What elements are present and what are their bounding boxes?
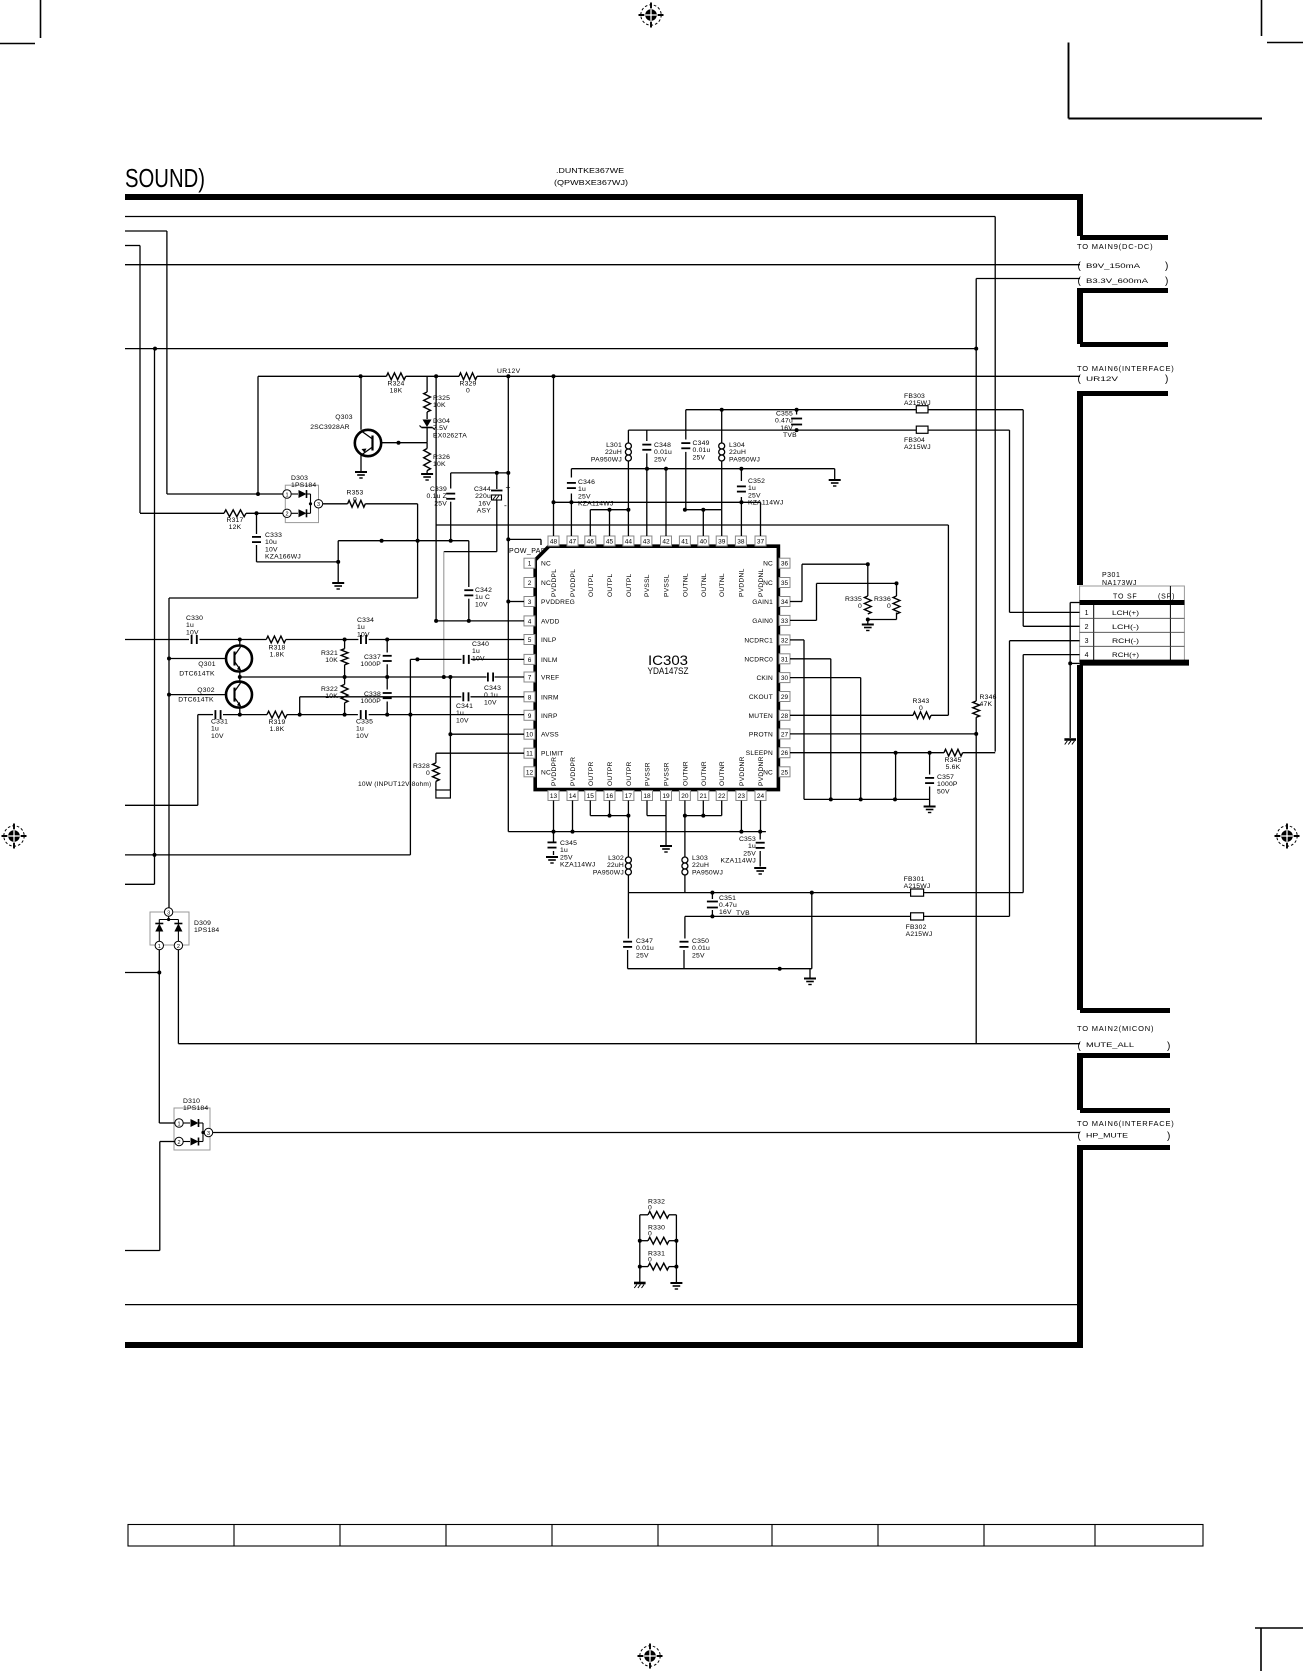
wire pin42 PVSSL drop bbox=[665, 469, 667, 536]
svg-text:1: 1 bbox=[158, 944, 161, 950]
IC303 pin 17 OUTPR bbox=[623, 791, 634, 801]
transistor Q301 DTC614TK bbox=[169, 658, 226, 660]
IC303 pin 47 PVDDPL bbox=[567, 536, 578, 546]
schematic border right side with connector tabs bbox=[1077, 197, 1083, 236]
svg-text:NC: NC bbox=[763, 769, 773, 776]
svg-text:0.01u: 0.01u bbox=[693, 447, 711, 454]
svg-text:SLEEPN: SLEEPN bbox=[746, 750, 773, 757]
svg-text:OUTPR: OUTPR bbox=[607, 761, 614, 786]
ground near C333 bbox=[332, 582, 344, 584]
IC303 pin 1 NC bbox=[524, 558, 535, 568]
IC303 pin 37 PVDDNL bbox=[755, 536, 766, 546]
svg-text:TVB: TVB bbox=[783, 432, 797, 439]
svg-text:AVSS: AVSS bbox=[541, 732, 559, 739]
wire pin13 drop bbox=[553, 801, 555, 843]
svg-text:1PS184: 1PS184 bbox=[194, 927, 219, 934]
ferrite bead FB301 A215WJ bbox=[911, 889, 924, 896]
ground under R335 bbox=[867, 620, 869, 624]
wire RCH+ rail y=892.6 via FB301 bbox=[628, 892, 910, 894]
wire stub y=972.5 bbox=[125, 972, 159, 974]
svg-text:): ) bbox=[1165, 276, 1169, 287]
wire RCH(-) drop x=1009.5 bbox=[1010, 640, 1080, 642]
svg-text:2: 2 bbox=[177, 1140, 180, 1146]
IC303 pin 43 PVSSL bbox=[641, 536, 652, 546]
svg-text:C348: C348 bbox=[654, 442, 671, 449]
svg-text:NCDRC1: NCDRC1 bbox=[744, 637, 773, 644]
svg-text:25V: 25V bbox=[578, 493, 591, 500]
IC303 pin 5 INLP bbox=[524, 635, 535, 645]
wire pin47/C346 column bbox=[570, 469, 572, 478]
svg-text:(: ( bbox=[1078, 276, 1082, 287]
svg-text:UR12V: UR12V bbox=[497, 368, 521, 375]
svg-text:3: 3 bbox=[207, 1131, 210, 1137]
capacitor C340 1u 10V bbox=[463, 655, 465, 664]
wire stub y=245.5 bbox=[125, 245, 140, 247]
IC303 pin 32 NCDRC1 bbox=[779, 635, 790, 645]
svg-text:17: 17 bbox=[625, 793, 633, 800]
svg-text:10V: 10V bbox=[456, 717, 469, 724]
svg-text:EX0262TA: EX0262TA bbox=[433, 432, 467, 439]
ground P301 shield bbox=[1064, 738, 1076, 741]
schematic border bottom thick bar bbox=[125, 1342, 1083, 1348]
svg-text:25V: 25V bbox=[748, 492, 761, 499]
svg-text:C347: C347 bbox=[636, 938, 653, 945]
svg-text:15: 15 bbox=[587, 793, 595, 800]
wire UR12V drop x=553.5 to PVDD join bbox=[553, 376, 555, 536]
inductor L304 22uH PA950WJ bbox=[721, 410, 723, 443]
svg-text:20: 20 bbox=[681, 793, 689, 800]
IC303 pin 27 PROTN bbox=[779, 729, 790, 739]
svg-text:GAIN0: GAIN0 bbox=[752, 618, 773, 625]
ferrite bead FB304 A215WJ bbox=[916, 426, 928, 433]
svg-text:3: 3 bbox=[1085, 638, 1089, 645]
wire POW_PAD link y=539.4 bbox=[508, 538, 541, 540]
svg-text:PROTN: PROTN bbox=[749, 731, 773, 738]
svg-text:18K: 18K bbox=[390, 388, 403, 395]
svg-text:0: 0 bbox=[648, 1205, 652, 1212]
svg-text:23: 23 bbox=[738, 793, 746, 800]
wire long rail y=525 to MUTEN pull bbox=[436, 524, 948, 526]
svg-text:1: 1 bbox=[177, 1121, 180, 1127]
svg-text:3: 3 bbox=[317, 502, 320, 508]
IC303 pin 46 OUTPL bbox=[585, 536, 596, 546]
svg-text:C335: C335 bbox=[356, 719, 373, 726]
svg-text:1.8K: 1.8K bbox=[270, 652, 285, 659]
wire pin17 column to L302 bbox=[627, 801, 629, 858]
IC303 pin 20 OUTNR bbox=[679, 791, 690, 801]
svg-text:25: 25 bbox=[781, 769, 789, 776]
svg-text:16: 16 bbox=[606, 793, 614, 800]
svg-text:10K: 10K bbox=[433, 402, 446, 409]
svg-text:1u: 1u bbox=[186, 622, 194, 629]
wire Q301 collector bbox=[239, 640, 241, 646]
wire stub y=231 bbox=[125, 230, 167, 232]
svg-text:50V: 50V bbox=[937, 788, 950, 795]
svg-text:1u C: 1u C bbox=[475, 594, 490, 601]
svg-text:10W (INPUT12V-8ohm): 10W (INPUT12V-8ohm) bbox=[358, 781, 431, 788]
capacitor C347 0.01u 25V bbox=[627, 893, 629, 939]
junction dot on y=540.7 node bbox=[380, 539, 384, 543]
svg-text:16V: 16V bbox=[719, 909, 732, 916]
svg-text:1u: 1u bbox=[357, 624, 365, 631]
IC303 pin 12 NC bbox=[524, 767, 535, 777]
capacitor C345 1u 25V KZA114WJ bbox=[548, 841, 557, 843]
svg-text:10V: 10V bbox=[484, 699, 497, 706]
ferrite bead FB303 A215WJ bbox=[916, 406, 928, 413]
wire OUTPL join y=509.7 bbox=[590, 509, 628, 511]
svg-text:): ) bbox=[1165, 261, 1169, 272]
wire OUTNL join y=509.7 bbox=[685, 509, 722, 511]
svg-text:VREF: VREF bbox=[541, 675, 559, 682]
wire Q303 base row y=442.7 bbox=[381, 442, 427, 444]
capacitor C339 0.1u Z 25V bbox=[450, 473, 452, 489]
svg-text:2: 2 bbox=[1085, 624, 1089, 631]
ground on rail-468.7 bbox=[834, 469, 836, 479]
resistor R324 18K bbox=[386, 373, 405, 380]
svg-text:A215WJ: A215WJ bbox=[904, 883, 931, 890]
wire rail y=409.7 (L amp supply via FB303) bbox=[686, 409, 917, 411]
P301 pin 3 RCH(-) bbox=[1080, 645, 1185, 647]
resistor R331 0 bbox=[648, 1263, 669, 1270]
svg-text:B3.3V_600mA: B3.3V_600mA bbox=[1086, 278, 1149, 285]
svg-text:1: 1 bbox=[1085, 610, 1089, 617]
wire pin32 NCDRC1 bbox=[790, 639, 804, 641]
svg-text:31: 31 bbox=[781, 656, 789, 663]
transistor Q302 DTC614TK bbox=[169, 694, 226, 696]
svg-text:33: 33 bbox=[781, 618, 789, 625]
svg-text:0: 0 bbox=[426, 770, 430, 777]
svg-text:47: 47 bbox=[569, 539, 577, 546]
capacitor C337 1000P bbox=[386, 640, 388, 653]
svg-text:L304: L304 bbox=[729, 442, 745, 449]
resistor R321 10K bbox=[344, 640, 346, 649]
transistor Q303 2SC3928AR bbox=[360, 376, 362, 430]
resistor R343 0 bbox=[913, 712, 931, 719]
IC303 pin 22 OUTNR bbox=[716, 791, 727, 801]
svg-text:19: 19 bbox=[662, 793, 670, 800]
svg-text:L302: L302 bbox=[608, 855, 624, 862]
ground chassis left bbox=[634, 1282, 646, 1285]
svg-text:0: 0 bbox=[648, 1257, 652, 1264]
wire rail y=799.4 bbox=[804, 798, 930, 800]
svg-text:R336: R336 bbox=[874, 596, 891, 603]
capacitor C333 10u 10V KZA166WJ bbox=[256, 513, 258, 534]
svg-text:TO SF: TO SF bbox=[1113, 594, 1137, 601]
svg-text:HP_MUTE: HP_MUTE bbox=[1086, 1133, 1129, 1140]
svg-text:16V: 16V bbox=[478, 500, 491, 507]
svg-text:22: 22 bbox=[718, 793, 726, 800]
svg-text:37: 37 bbox=[757, 539, 765, 546]
svg-text:LCH(+): LCH(+) bbox=[1112, 610, 1139, 617]
svg-text:29: 29 bbox=[781, 694, 789, 701]
svg-text:18: 18 bbox=[643, 793, 651, 800]
wire MUTE_ALL y=1043.7 bbox=[178, 1043, 1080, 1045]
wire R network right rail bbox=[669, 1214, 676, 1216]
ground under Q303 bbox=[355, 471, 367, 473]
svg-text:16V: 16V bbox=[780, 425, 793, 432]
wire INRM line y=696.8 bbox=[300, 696, 462, 698]
wire UR12V left drop to D303 bbox=[257, 376, 259, 494]
svg-text:OUTPL: OUTPL bbox=[607, 573, 614, 597]
bottom thin rule bbox=[125, 1304, 1080, 1306]
svg-text:R321: R321 bbox=[321, 650, 338, 657]
svg-text:Q301: Q301 bbox=[198, 661, 215, 668]
schematic border top thick bar bbox=[125, 194, 1083, 200]
svg-text:10V: 10V bbox=[472, 655, 485, 662]
diode D304 7.5V EX0262TA (zener) bbox=[426, 412, 428, 419]
svg-text:C345: C345 bbox=[560, 840, 577, 847]
svg-text:PVDDPL: PVDDPL bbox=[570, 569, 577, 597]
svg-text:0.1u Z: 0.1u Z bbox=[427, 493, 447, 500]
svg-text:NC: NC bbox=[541, 769, 551, 776]
wire pin28 MUTEN bbox=[790, 714, 913, 716]
svg-text:R343: R343 bbox=[912, 698, 929, 705]
svg-text:KZA166WJ: KZA166WJ bbox=[265, 554, 301, 561]
resistor R346 47K bbox=[973, 701, 980, 717]
resistor R317 12K bbox=[140, 512, 224, 514]
wire INLM riser x=410.4 bbox=[409, 659, 411, 855]
svg-text:8: 8 bbox=[528, 694, 532, 701]
page corner mark bottom-right bbox=[1255, 1627, 1303, 1629]
svg-text:OUTNR: OUTNR bbox=[682, 761, 689, 786]
svg-text:1u: 1u bbox=[211, 726, 219, 733]
svg-text:Q302: Q302 bbox=[197, 687, 214, 694]
svg-text:C331: C331 bbox=[211, 719, 228, 726]
svg-text:NC: NC bbox=[763, 580, 773, 587]
IC303 pin 7 VREF bbox=[524, 672, 535, 682]
wire pin3 PVDDREG bbox=[508, 601, 524, 603]
resistor R325 10K bbox=[426, 376, 428, 392]
svg-text:2SC3928AR: 2SC3928AR bbox=[310, 424, 350, 431]
svg-text:L303: L303 bbox=[692, 855, 708, 862]
svg-text:OUTNR: OUTNR bbox=[701, 761, 708, 786]
svg-text:D303: D303 bbox=[291, 475, 308, 482]
capacitor C338 1000P bbox=[386, 677, 388, 690]
wire PVDD join y=502.3 bbox=[554, 501, 761, 503]
svg-text:25V: 25V bbox=[560, 854, 573, 861]
wire B9V_150mA rail (y=264.7) bbox=[125, 264, 1080, 266]
svg-text:41: 41 bbox=[681, 539, 689, 546]
capacitor C342 1u C 10V bbox=[468, 541, 470, 587]
svg-text:34: 34 bbox=[781, 599, 789, 606]
svg-text:MUTE_ALL: MUTE_ALL bbox=[1086, 1042, 1135, 1049]
svg-text:0.01u: 0.01u bbox=[654, 449, 672, 456]
svg-text:PA950WJ: PA950WJ bbox=[591, 456, 622, 463]
svg-text:C337: C337 bbox=[364, 654, 381, 661]
IC303 pin 30 CKIN bbox=[779, 673, 790, 683]
svg-text:2: 2 bbox=[285, 512, 288, 518]
svg-text:0.01u: 0.01u bbox=[636, 945, 654, 952]
svg-text:48: 48 bbox=[550, 539, 558, 546]
wire stub y=1250.5 bbox=[125, 1250, 160, 1252]
svg-text:14: 14 bbox=[569, 793, 577, 800]
svg-text:25V: 25V bbox=[743, 850, 756, 857]
svg-text:1000P: 1000P bbox=[937, 781, 958, 788]
svg-text:AVDD: AVDD bbox=[541, 618, 560, 625]
svg-text:POW_PAD: POW_PAD bbox=[509, 548, 546, 555]
IC303 pin 29 CKOUT bbox=[779, 692, 790, 702]
wire INLM line y=659.4 bbox=[410, 658, 461, 660]
wire Q302 emitter bbox=[239, 708, 241, 715]
svg-text:220u: 220u bbox=[475, 493, 491, 500]
resistor R345 5.6K bbox=[944, 749, 963, 756]
wire pin24 drop bbox=[760, 801, 762, 832]
svg-text:YDA147SZ: YDA147SZ bbox=[648, 666, 689, 676]
svg-text:12K: 12K bbox=[229, 524, 242, 531]
svg-text:10: 10 bbox=[526, 732, 534, 739]
svg-text:4: 4 bbox=[1085, 652, 1089, 659]
svg-text:INLP: INLP bbox=[541, 637, 557, 644]
svg-text:10V: 10V bbox=[186, 629, 199, 636]
svg-text:3: 3 bbox=[167, 910, 170, 916]
wire stub y=855.5 bbox=[125, 883, 155, 885]
svg-text:R324: R324 bbox=[387, 381, 404, 388]
resistor R332 0 bbox=[648, 1211, 669, 1218]
svg-text:25V: 25V bbox=[654, 456, 667, 463]
svg-text:0: 0 bbox=[353, 497, 357, 504]
svg-text:C342: C342 bbox=[475, 587, 492, 594]
wire AVSS pin10 bbox=[450, 733, 524, 735]
svg-text:PVDDNL: PVDDNL bbox=[738, 568, 745, 597]
svg-text:OUTNR: OUTNR bbox=[719, 761, 726, 786]
capacitor C346 1u 25V KZA114WJ bbox=[567, 482, 576, 484]
svg-text:35: 35 bbox=[781, 580, 789, 587]
wire RCH(+) drop x=1023.2 bbox=[1023, 654, 1079, 656]
IC303 pin 4 AVDD bbox=[524, 616, 535, 626]
capacitor C353 1u 25V KZA114WJ bbox=[759, 832, 761, 840]
svg-text:1: 1 bbox=[528, 561, 532, 568]
svg-text:13: 13 bbox=[550, 793, 558, 800]
jumper box below R328/AVSS columns bbox=[436, 790, 451, 798]
capacitor C331 1u 10V bbox=[214, 710, 216, 719]
capacitor C335 1u 10V bbox=[360, 710, 362, 719]
svg-text:SOUND): SOUND) bbox=[125, 165, 205, 193]
svg-text:CKOUT: CKOUT bbox=[749, 694, 773, 701]
svg-text:39: 39 bbox=[718, 539, 726, 546]
svg-text:B9V_150mA: B9V_150mA bbox=[1086, 263, 1141, 270]
svg-text:5.6K: 5.6K bbox=[946, 764, 961, 771]
IC303 pin 6 INLM bbox=[524, 654, 535, 664]
svg-text:1u: 1u bbox=[560, 847, 568, 854]
svg-text:C344: C344 bbox=[474, 486, 491, 493]
P301 pin 1 LCH(+) bbox=[1080, 617, 1185, 619]
IC303 pin 48 PVDDPL bbox=[548, 536, 559, 546]
svg-text:PVDDREG: PVDDREG bbox=[541, 599, 575, 606]
svg-text:32: 32 bbox=[781, 637, 789, 644]
svg-text:7.5V: 7.5V bbox=[433, 425, 448, 432]
wire rail y=472.9 (C339/C344 top) bbox=[451, 472, 509, 474]
svg-text:11: 11 bbox=[526, 751, 533, 758]
wire pin37 drop bbox=[760, 502, 762, 536]
svg-text:R346: R346 bbox=[980, 694, 997, 701]
IC303 pin 42 PVSSL bbox=[661, 536, 672, 546]
svg-text:27: 27 bbox=[781, 731, 789, 738]
svg-text:C357: C357 bbox=[937, 774, 954, 781]
P301 pin 2 LCH(-) bbox=[1080, 631, 1185, 633]
svg-text:36: 36 bbox=[781, 561, 789, 568]
wire Q301 emitter to VREF row bbox=[239, 672, 241, 682]
IC303 pin 10 AVSS bbox=[524, 729, 535, 739]
svg-text:46: 46 bbox=[587, 539, 595, 546]
capacitor C330 1u 10V bbox=[191, 635, 193, 644]
wire LCH(+) drop x=1009.5 bbox=[1009, 430, 1011, 612]
svg-text:RCH(-): RCH(-) bbox=[1112, 638, 1139, 645]
IC303 pin 45 OUTPL bbox=[604, 536, 615, 546]
ground on rail-799.4 bbox=[929, 799, 931, 805]
IC303 pin 40 OUTNL bbox=[698, 536, 709, 546]
svg-text:10V: 10V bbox=[357, 631, 370, 638]
svg-text:R317: R317 bbox=[226, 517, 243, 524]
svg-text:C333: C333 bbox=[265, 532, 282, 539]
IC303 pin 15 OUTPR bbox=[585, 791, 596, 801]
svg-text:12: 12 bbox=[526, 769, 534, 776]
capacitor C357 1000P 50V bbox=[929, 753, 931, 775]
wire INLP line y=639.5 bbox=[125, 639, 189, 641]
ground under R326 bbox=[426, 471, 428, 473]
resistor R326 10K bbox=[426, 443, 428, 449]
svg-text:KZA114WJ: KZA114WJ bbox=[560, 862, 595, 869]
svg-text:C340: C340 bbox=[472, 641, 489, 648]
wire OUTPR join y=815.6 bbox=[589, 801, 591, 816]
inductor L301 22uH PA950WJ bbox=[627, 430, 629, 443]
svg-text:NC: NC bbox=[541, 561, 551, 568]
svg-text:.DUNTKE367WE: .DUNTKE367WE bbox=[556, 168, 624, 175]
svg-text:(SP): (SP) bbox=[1158, 594, 1175, 601]
svg-text:C343: C343 bbox=[484, 685, 501, 692]
ground on rail-968.7 bbox=[809, 969, 811, 978]
svg-text:C355: C355 bbox=[776, 411, 793, 418]
registration crosshair right-middle bbox=[1275, 835, 1300, 837]
svg-text:PLIMIT: PLIMIT bbox=[541, 751, 563, 758]
svg-text:OUTPR: OUTPR bbox=[588, 761, 595, 786]
wire R346 column to MUTE_ALL bbox=[975, 717, 977, 1043]
svg-text:0: 0 bbox=[858, 603, 862, 610]
wire PVSSR join y=815.6 bbox=[646, 801, 648, 816]
svg-text:47K: 47K bbox=[980, 701, 993, 708]
svg-text:22uH: 22uH bbox=[729, 449, 746, 456]
page frame corner top-right bbox=[1068, 43, 1070, 119]
resistor R319 1.8K bbox=[267, 711, 287, 718]
IC303 pin 24 PVDDNR bbox=[755, 791, 766, 801]
svg-text:1000P: 1000P bbox=[360, 698, 381, 705]
svg-text:30: 30 bbox=[781, 675, 789, 682]
svg-text:FB302: FB302 bbox=[906, 924, 927, 931]
svg-text:25V: 25V bbox=[636, 952, 649, 959]
wire pin30 CKIN bbox=[790, 677, 861, 679]
svg-text:PVDDPR: PVDDPR bbox=[551, 757, 558, 786]
svg-text:PVSSR: PVSSR bbox=[645, 762, 652, 786]
svg-text:C341: C341 bbox=[456, 703, 473, 710]
svg-text:UR12V: UR12V bbox=[1086, 376, 1119, 383]
svg-text:1.8K: 1.8K bbox=[270, 726, 285, 733]
svg-text:NC: NC bbox=[763, 561, 773, 568]
wire pin36 row bbox=[802, 563, 868, 565]
wire RCH- rail y=916.4 via FB302 bbox=[685, 915, 911, 917]
wire OUTNR join y=815.6 bbox=[684, 801, 686, 816]
svg-text:FB301: FB301 bbox=[904, 876, 925, 883]
IC303 pin 41 OUTNL bbox=[679, 536, 690, 546]
svg-text:(: ( bbox=[1078, 1041, 1082, 1052]
svg-text:OUTPR: OUTPR bbox=[626, 761, 633, 786]
diode D309 1PS184 (dual) bbox=[150, 912, 189, 945]
inductor L302 22uH PA950WJ bbox=[625, 857, 631, 863]
svg-text:PVDDNR: PVDDNR bbox=[739, 756, 746, 786]
svg-text:26: 26 bbox=[781, 750, 789, 757]
wire MUTEN pull to B9V x=948.7 bbox=[931, 714, 948, 716]
svg-text:A215WJ: A215WJ bbox=[904, 444, 931, 451]
svg-text:DTC614TK: DTC614TK bbox=[178, 697, 214, 704]
IC303 pin 33 GAIN0 bbox=[779, 615, 790, 625]
